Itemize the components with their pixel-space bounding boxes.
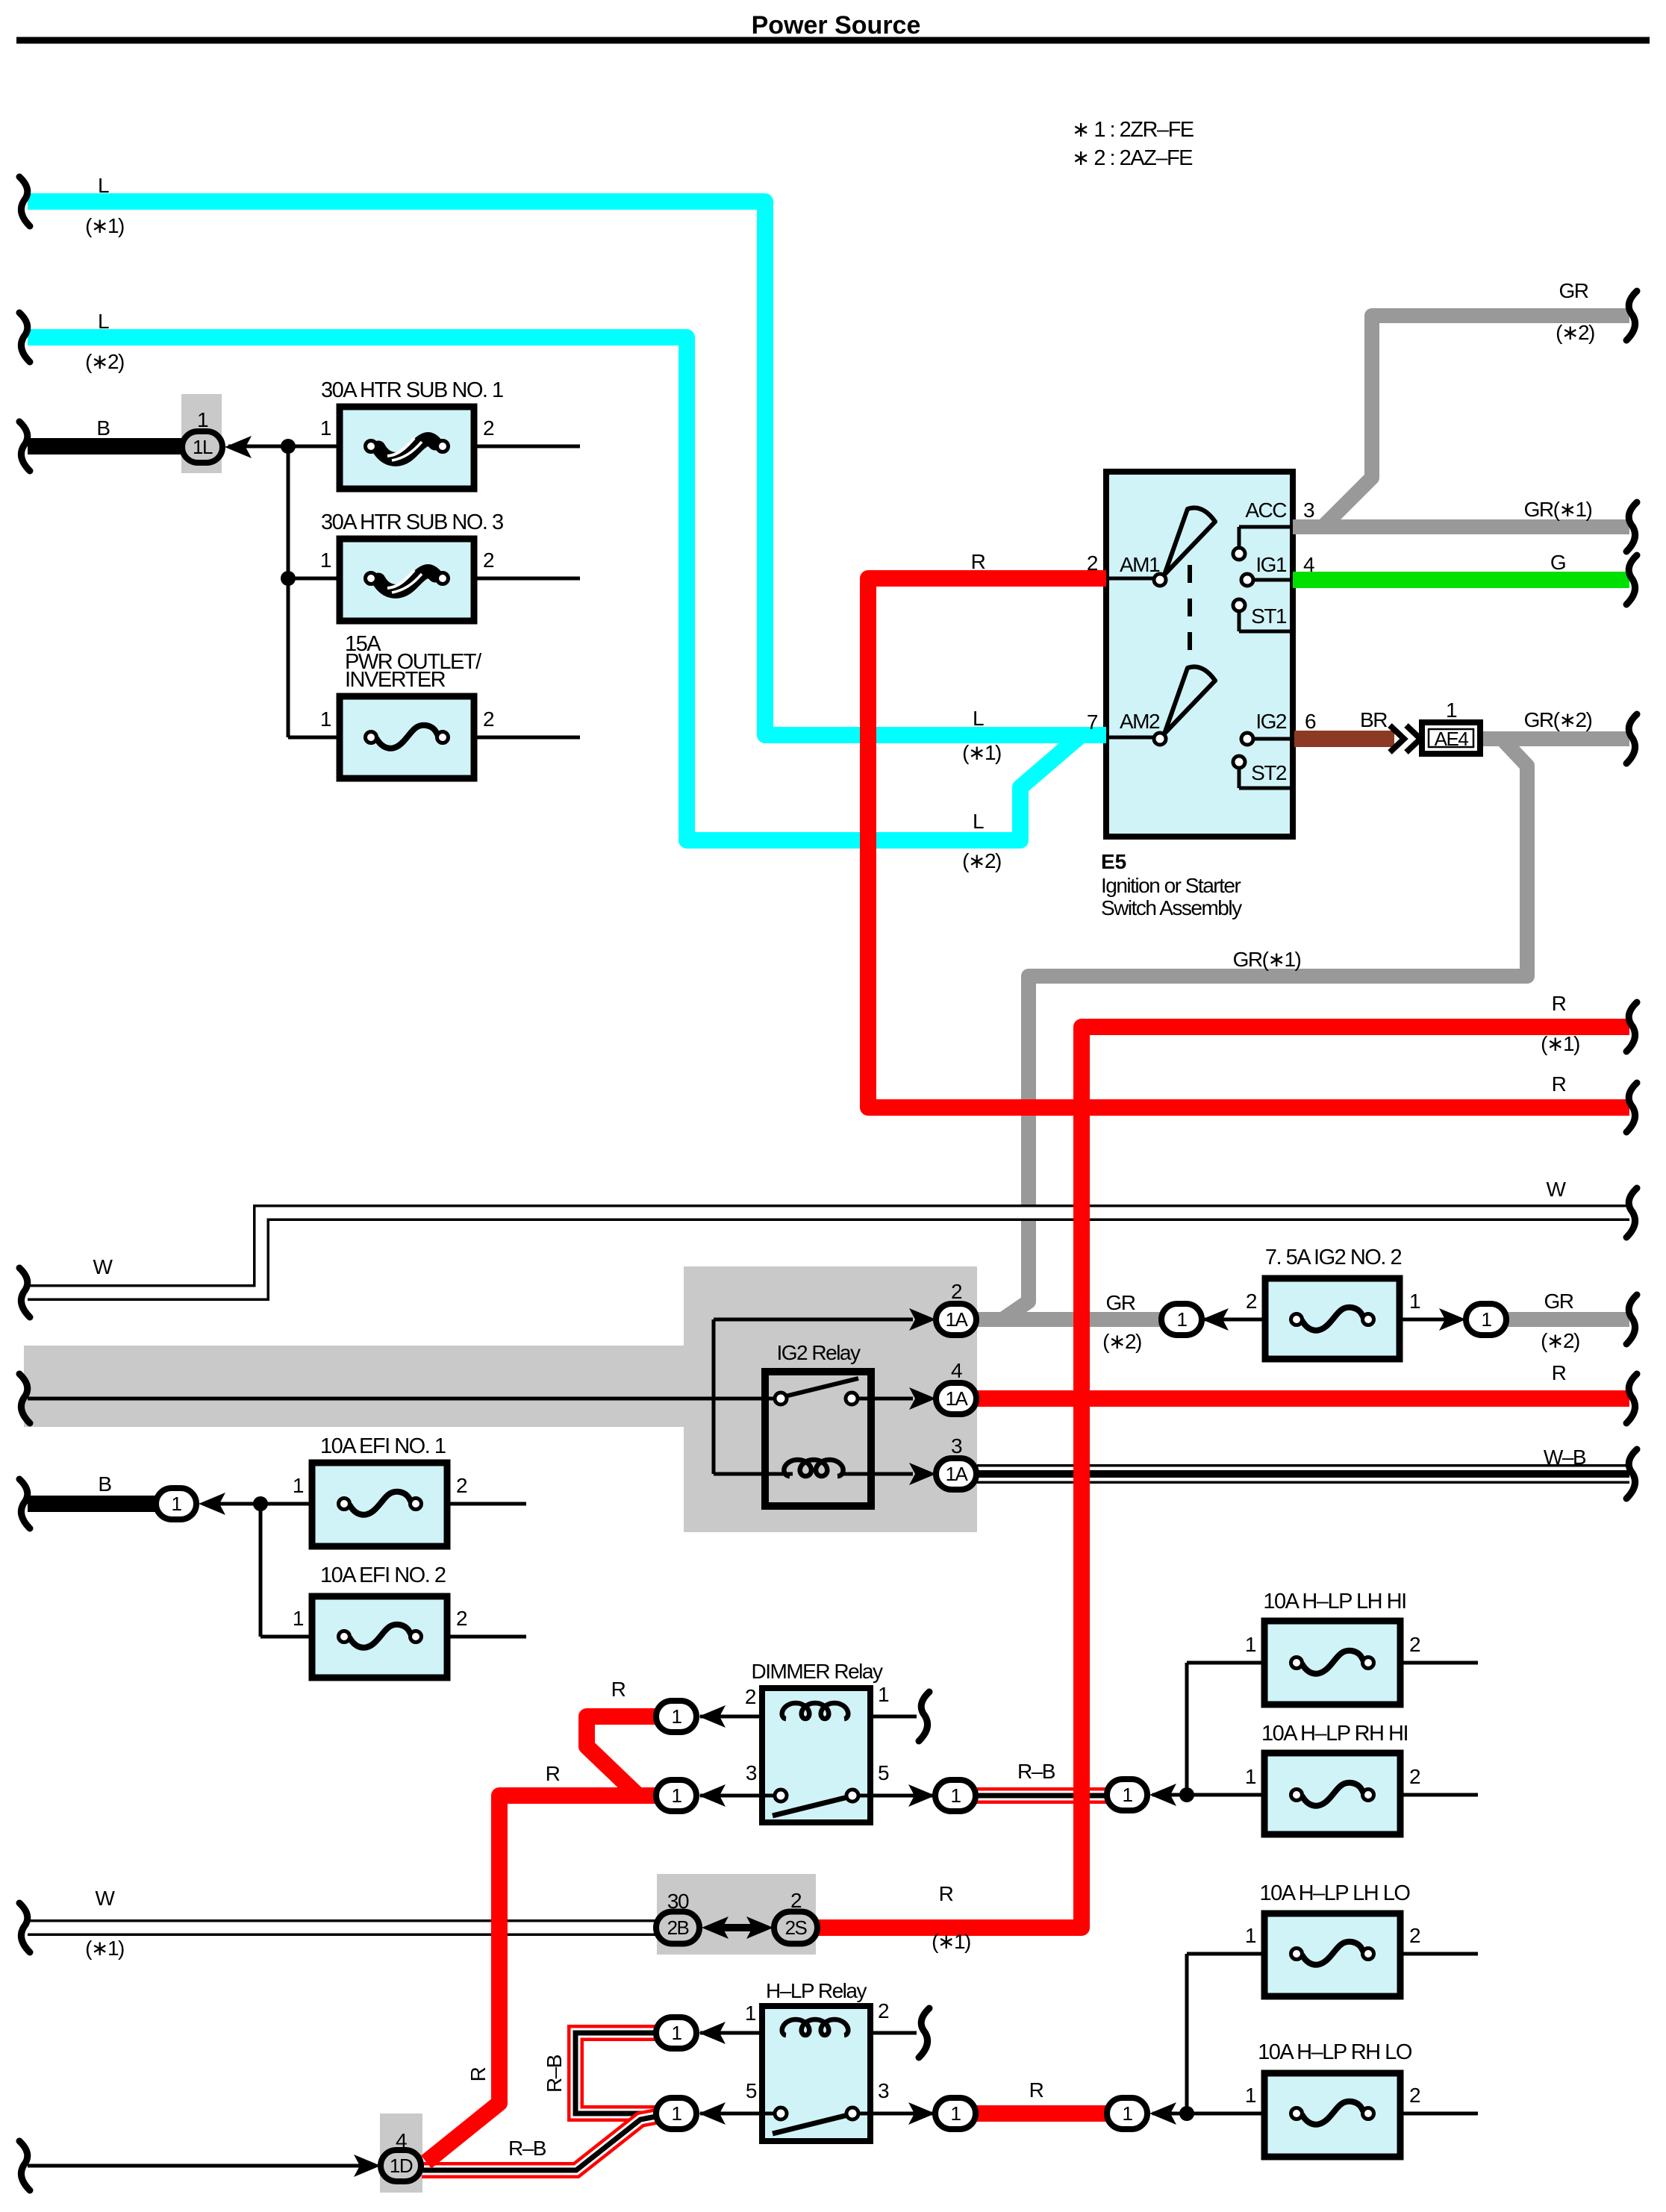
svg-text:1: 1 <box>672 2102 682 2125</box>
connector 1A pin2 <box>909 1280 976 1335</box>
wire: fuse 15A output stub <box>474 736 580 740</box>
fuse 30A HTR SUB NO.3 pins <box>320 549 494 572</box>
svg-text:10A H–LP RH LO: 10A H–LP RH LO <box>1258 2040 1412 2064</box>
IG2 relay switch <box>775 1378 858 1405</box>
fuse 30A HTR SUB NO.1 box <box>340 407 474 489</box>
label R-B 1D <box>508 2137 546 2160</box>
svg-text:7: 7 <box>1087 710 1098 734</box>
break B left <box>19 422 30 471</box>
wire: fuse HTR1 output stub <box>474 445 580 449</box>
label R-B loop rotated <box>543 2055 566 2093</box>
svg-text:3: 3 <box>878 2079 889 2102</box>
svg-text:(∗2): (∗2) <box>1556 321 1594 344</box>
svg-text:DIMMER Relay: DIMMER Relay <box>752 1660 883 1683</box>
svg-text:2: 2 <box>483 416 494 440</box>
svg-text:W: W <box>1547 1178 1567 1201</box>
label L(*1) <box>85 174 124 237</box>
E5 AM2 terminal <box>1106 733 1166 745</box>
fuse 15A label <box>345 632 482 692</box>
label W left <box>93 1255 113 1278</box>
wire: fuse RH LO output stub <box>1400 2112 1478 2116</box>
svg-text:1: 1 <box>1245 1924 1256 1947</box>
svg-text:ST1: ST1 <box>1251 604 1287 628</box>
label R dimmer sw <box>546 1762 560 1785</box>
H-LP relay box <box>762 2006 870 2141</box>
fuse 10A H-LP LH HI box <box>1264 1621 1400 1705</box>
break 1D left <box>19 2141 30 2190</box>
svg-text:L: L <box>973 810 984 833</box>
wire: fuse LH HI output stub <box>1400 1661 1478 1665</box>
fuse 30A HTR SUB NO.1 element <box>366 438 449 460</box>
wire: DIMMER relay pin3 lead <box>700 1794 781 1798</box>
fuse 10A EFI NO.2 pins <box>293 1607 467 1630</box>
connector 2B/2S highlight background <box>657 1874 816 1955</box>
label R trunk rotated <box>467 2067 490 2081</box>
DIMMER relay box <box>762 1688 870 1822</box>
svg-text:1: 1 <box>172 1493 182 1515</box>
H-LP relay pin numbers <box>745 1999 889 2102</box>
svg-text:R–B: R–B <box>1017 1760 1055 1783</box>
svg-text:R: R <box>1029 2078 1043 2102</box>
E5 pin numbers <box>1087 499 1316 734</box>
connector AE4 <box>1390 699 1480 754</box>
wire: fuse EFI1 output stub <box>447 1502 526 1506</box>
connector 1 (GR to fuse) <box>1161 1304 1229 1335</box>
svg-text:Switch Assembly: Switch Assembly <box>1101 896 1242 919</box>
E5 IG2 terminal <box>1241 733 1293 745</box>
svg-text:4: 4 <box>951 1359 962 1382</box>
svg-text:3: 3 <box>951 1434 962 1458</box>
svg-text:10A H–LP LH LO: 10A H–LP LH LO <box>1260 1881 1411 1905</box>
svg-text:R–B: R–B <box>508 2137 546 2160</box>
wire R IG2 relay pin4 <box>977 1390 1629 1407</box>
label GR(*2) AE4 <box>1524 708 1592 731</box>
break B EFI left <box>19 1479 30 1528</box>
label GR(*2) right <box>1541 1290 1579 1352</box>
svg-text:5: 5 <box>746 2079 757 2102</box>
svg-text:GR: GR <box>1544 1290 1573 1313</box>
svg-text:INVERTER: INVERTER <box>345 668 446 692</box>
IG2 relay highlight background <box>24 1266 977 1532</box>
svg-text:4: 4 <box>1303 553 1314 576</box>
fuse 10A EFI NO.2 label <box>320 1563 446 1587</box>
svg-text:ST2: ST2 <box>1251 761 1287 784</box>
svg-text:W–B: W–B <box>1544 1446 1586 1469</box>
title: Power Source <box>752 11 921 40</box>
svg-text:1A: 1A <box>946 1463 969 1485</box>
svg-text:R: R <box>1552 1072 1566 1096</box>
fuse 10A H-LP LH HI element <box>1291 1651 1374 1674</box>
connector 1 (DIMMER pin3) <box>656 1780 726 1811</box>
connector 1 (H-LP pin5) <box>656 2098 726 2129</box>
connector 1D highlight background <box>380 2113 422 2193</box>
svg-text:1: 1 <box>672 1784 682 1807</box>
wire W-B from IG2 relay pin3 <box>977 1464 1629 1484</box>
svg-text:(∗2): (∗2) <box>962 849 1001 872</box>
svg-text:R–B: R–B <box>543 2055 566 2093</box>
title rule <box>16 37 1650 44</box>
svg-text:1: 1 <box>1482 1308 1492 1331</box>
svg-text:GR(∗1): GR(∗1) <box>1233 948 1301 971</box>
junction dot 1L bus <box>281 439 296 454</box>
fuse 30A HTR SUB NO.1 label <box>321 378 503 402</box>
E5 ST1 terminal <box>1233 599 1293 631</box>
wire B battery (EFI) <box>28 1496 156 1512</box>
break IG2-band left <box>19 1374 30 1423</box>
E5 ACC terminal <box>1233 527 1293 560</box>
label B EFI <box>98 1472 111 1496</box>
svg-text:L: L <box>98 174 109 197</box>
wire: 1D feed line from left <box>28 2164 361 2168</box>
svg-text:R: R <box>546 1762 560 1785</box>
wire: H-LP relay coil to pin2 break <box>870 2031 917 2035</box>
wire: IG2 relay switch to 1A pin4 <box>852 1397 913 1401</box>
svg-text:2: 2 <box>456 1607 467 1630</box>
svg-text:7. 5A IG2 NO. 2: 7. 5A IG2 NO. 2 <box>1265 1246 1402 1269</box>
wire R-B H-LP coil loop <box>575 2033 658 2113</box>
svg-text:2: 2 <box>1246 1290 1257 1313</box>
label R H-LP out <box>1029 2078 1043 2102</box>
svg-text:(∗1): (∗1) <box>932 1930 970 1953</box>
svg-text:1: 1 <box>1245 2084 1256 2107</box>
svg-text:AM2: AM2 <box>1120 710 1160 733</box>
svg-text:1: 1 <box>320 549 331 572</box>
svg-text:1: 1 <box>320 707 331 731</box>
label W right <box>1547 1178 1567 1201</box>
svg-text:(∗1): (∗1) <box>85 1937 124 1960</box>
wire: fuse LH LO output stub <box>1400 1952 1478 1956</box>
DIMMER relay pin numbers <box>745 1683 889 1784</box>
svg-text:W: W <box>93 1255 113 1278</box>
svg-text:G: G <box>1550 551 1565 574</box>
svg-text:1: 1 <box>293 1474 304 1497</box>
svg-text:(∗2): (∗2) <box>1102 1330 1141 1353</box>
break G right <box>1626 555 1637 604</box>
svg-text:2S: 2S <box>785 1916 808 1939</box>
svg-text:IG2 Relay: IG2 Relay <box>777 1341 861 1364</box>
svg-text:IG2: IG2 <box>1255 710 1287 733</box>
link 2B-2S <box>722 1924 753 1931</box>
wire: junction to H-LP LO fuses <box>1152 1954 1264 2113</box>
junction dot H-LP LO fuses <box>1179 2106 1194 2121</box>
wire B battery (top) <box>28 438 182 454</box>
IG2 relay coil <box>784 1460 843 1476</box>
label L(*2) AM2 <box>962 810 1001 872</box>
wire: junction to H-LP HI fuses <box>1152 1663 1264 1795</box>
junction dot HTR3 <box>281 571 296 586</box>
svg-text:2: 2 <box>790 1889 802 1912</box>
wire: IG2 relay switch feed (in gray band) <box>28 1397 781 1401</box>
wire: fuse EFI2 output stub <box>447 1635 526 1639</box>
H-LP relay coil <box>782 2019 849 2035</box>
connector 1 (B EFI) <box>156 1488 225 1519</box>
DIMMER relay coil <box>782 1703 849 1719</box>
svg-text:2: 2 <box>456 1474 467 1497</box>
wire GR(*2) fuse to right <box>1503 1312 1629 1327</box>
svg-text:1: 1 <box>1177 1308 1188 1331</box>
fuse 15A PWR OUTLET/INVERTER box <box>340 696 474 778</box>
fuse 10A H-LP RH HI element <box>1291 1783 1374 1806</box>
svg-text:BR: BR <box>1360 708 1387 731</box>
fuse 7.5A IG2 NO.2 label <box>1265 1246 1402 1269</box>
wire: DIMMER relay pin5 to connector <box>852 1794 939 1798</box>
wire R-B DIMMER pin5 <box>973 1787 1109 1804</box>
wire: fuse HTR3 output stub <box>474 577 580 581</box>
wire: DIMMER relay coil to pin1 break <box>870 1715 917 1719</box>
svg-text:IG1: IG1 <box>1255 553 1287 576</box>
label GR(*2) top <box>1556 279 1594 344</box>
label GR(*2) pin2 <box>1102 1291 1141 1353</box>
E5 AM1 terminal <box>1106 574 1166 586</box>
svg-text:1: 1 <box>951 1784 961 1807</box>
svg-text:Ignition or Starter: Ignition or Starter <box>1101 874 1241 897</box>
break DIMMER pin1 right <box>919 1692 929 1741</box>
wire R(*1) riser <box>816 1027 1629 1928</box>
label G <box>1550 551 1565 574</box>
break W left <box>19 1268 30 1317</box>
svg-text:R: R <box>1552 992 1566 1015</box>
svg-text:2: 2 <box>1409 1633 1420 1656</box>
svg-text:2: 2 <box>483 707 494 731</box>
svg-text:1: 1 <box>878 1683 889 1706</box>
svg-text:R: R <box>1552 1361 1566 1384</box>
label R pin4 <box>1552 1361 1566 1384</box>
connector 1D <box>354 2129 421 2181</box>
fuse 15A element <box>366 725 449 749</box>
fuse 7.5A IG2 NO.2 box <box>1265 1278 1400 1359</box>
svg-text:10A H–LP LH HI: 10A H–LP LH HI <box>1263 1590 1406 1613</box>
svg-text:1L: 1L <box>193 436 213 458</box>
break R pin4 right <box>1626 1374 1637 1423</box>
fuse 10A EFI NO.2 box <box>312 1596 447 1678</box>
wire R-B from 1D to H-LP pin5 <box>422 2116 656 2170</box>
svg-text:1: 1 <box>1123 2102 1133 2125</box>
fuse 10A H-LP RH LO pins <box>1245 2084 1420 2107</box>
E5 AM1 lever <box>1164 507 1215 575</box>
label R(*1) right <box>1541 992 1579 1055</box>
E5 terminal names <box>1120 499 1287 784</box>
svg-text:3: 3 <box>1303 499 1314 522</box>
fuse 15A pins <box>320 707 494 731</box>
DIMMER relay label <box>752 1660 883 1683</box>
svg-text:2: 2 <box>745 1685 756 1708</box>
wire GR from ACC with GR(*2) branch <box>1293 316 1629 527</box>
svg-text:2: 2 <box>1409 2084 1420 2107</box>
wire: H-LP relay pin1 lead <box>700 2031 762 2035</box>
wire R DIMMER branch <box>587 1716 658 1798</box>
connector 2B <box>656 1890 729 1944</box>
wire G green from IG1 <box>1293 572 1629 588</box>
svg-text:1D: 1D <box>390 2155 413 2177</box>
svg-text:R: R <box>467 2067 490 2081</box>
svg-text:(∗2): (∗2) <box>1541 1329 1579 1352</box>
break W right <box>1626 1188 1637 1237</box>
break W-B right <box>1626 1449 1637 1499</box>
break W(*1) left <box>19 1903 30 1952</box>
E5 IG1 terminal <box>1241 574 1293 586</box>
connector 2S <box>746 1889 817 1944</box>
svg-text:1: 1 <box>1245 1633 1256 1656</box>
wire: fuse RH HI output stub <box>1400 1793 1478 1797</box>
junction dot EFI <box>253 1496 268 1511</box>
svg-text:2: 2 <box>951 1280 962 1303</box>
svg-text:2: 2 <box>483 549 494 572</box>
fuse 10A EFI NO.1 element <box>339 1492 422 1515</box>
fuse 10A H-LP LH HI pins <box>1245 1633 1420 1656</box>
wire: 7.5A fuse leads <box>1205 1318 1446 1322</box>
fuse 10A H-LP LH LO pins <box>1245 1924 1420 1947</box>
svg-text:2: 2 <box>1087 552 1098 575</box>
wire BR brown from IG2 <box>1294 731 1394 747</box>
svg-text:10A H–LP RH HI: 10A H–LP RH HI <box>1261 1722 1408 1746</box>
svg-text:∗ 2 : 2AZ–FE: ∗ 2 : 2AZ–FE <box>1072 146 1193 170</box>
label W-B <box>1544 1446 1586 1469</box>
label B top <box>96 416 110 440</box>
svg-text:GR: GR <box>1559 279 1588 302</box>
label BR <box>1360 708 1387 731</box>
connector 1 (R-B to HI fuses) <box>1107 1779 1176 1810</box>
wire GR(*2) from AE4 <box>1480 731 1629 746</box>
connector 1L highlight background <box>181 394 222 473</box>
svg-text:R: R <box>971 550 985 573</box>
label R(*1) 2S <box>932 1882 970 1953</box>
wire: IG2 relay coil feed from 1A pin2 <box>714 1319 913 1474</box>
wire GR(*2) IG2 relay pin2 to fuse <box>977 1312 1161 1327</box>
E5 lever dashed link <box>1188 565 1192 661</box>
svg-text:(∗1): (∗1) <box>962 741 1001 764</box>
svg-text:1A: 1A <box>946 1308 969 1331</box>
break GR(*2) AE4 right <box>1626 714 1637 763</box>
connector 1A pin4 <box>909 1359 976 1414</box>
svg-text:2: 2 <box>878 1999 889 2022</box>
fuse 30A HTR SUB NO.3 label <box>321 510 503 534</box>
svg-text:30A HTR SUB NO. 1: 30A HTR SUB NO. 1 <box>321 378 503 402</box>
label R right <box>1552 1072 1566 1096</box>
connector 1 (H-LP pin1) <box>656 2017 726 2049</box>
svg-text:R: R <box>611 1678 625 1701</box>
wire R H-LP pin3 <box>973 2105 1109 2122</box>
connector 1 (DIMMER pin2) <box>656 1701 726 1732</box>
svg-text:R: R <box>939 1882 953 1905</box>
svg-text:Power Source: Power Source <box>752 11 921 40</box>
fuse 10A H-LP LH LO element <box>1291 1942 1374 1965</box>
wire R from AM1 <box>868 578 1629 1107</box>
svg-text:10A EFI NO. 1: 10A EFI NO. 1 <box>320 1434 446 1458</box>
label L(*1) AM2 <box>962 707 1001 764</box>
svg-text:1A: 1A <box>946 1387 969 1410</box>
svg-text:1: 1 <box>672 1705 682 1728</box>
svg-text:10A EFI NO. 2: 10A EFI NO. 2 <box>320 1563 446 1587</box>
svg-text:1: 1 <box>320 416 331 440</box>
fuse 10A H-LP LH LO label <box>1260 1881 1411 1905</box>
fuse 10A H-LP RH HI box <box>1264 1753 1400 1834</box>
E5 component label <box>1101 850 1242 919</box>
wire R trunk to 1D <box>426 1796 658 2162</box>
H-LP relay label <box>766 1979 867 2002</box>
break L(*2) left <box>19 313 30 362</box>
wire: H-LP relay pin3 to connector <box>852 2112 939 2116</box>
fuse 10A H-LP RH LO box <box>1264 2073 1400 2157</box>
label W(*1) 2B <box>85 1887 124 1960</box>
label L(*2) <box>85 310 124 373</box>
svg-text:1: 1 <box>745 2002 756 2025</box>
wire: H-LP relay pin5 lead <box>700 2112 781 2116</box>
svg-text:6: 6 <box>1305 710 1316 733</box>
svg-text:1: 1 <box>951 2102 961 2125</box>
svg-text:B: B <box>98 1472 111 1496</box>
wire L(*1) cyan <box>28 201 1106 735</box>
break GR(*2) right <box>1626 291 1637 340</box>
connector 1 (R to LO fuses) <box>1107 2098 1176 2129</box>
fuse 10A H-LP RH LO element <box>1291 2102 1374 2125</box>
svg-text:ACC: ACC <box>1245 499 1287 522</box>
connector 1 (DIMMER pin5 out) <box>908 1780 976 1811</box>
svg-text:1: 1 <box>1446 699 1457 722</box>
ignition switch E5 box <box>1106 472 1293 837</box>
svg-text:1: 1 <box>1245 1765 1256 1788</box>
svg-text:(∗1): (∗1) <box>85 214 124 237</box>
svg-text:L: L <box>973 707 984 730</box>
wire: EFI junction bus <box>203 1504 312 1637</box>
svg-text:E5: E5 <box>1101 850 1126 873</box>
E5 AM2 lever <box>1164 666 1215 734</box>
svg-text:B: B <box>96 416 110 440</box>
IG2 relay box <box>765 1372 871 1506</box>
svg-text:5: 5 <box>878 1761 889 1784</box>
break R(*1) right <box>1626 1002 1637 1052</box>
wire L(*2) cyan <box>28 337 1079 840</box>
svg-text:2: 2 <box>1409 1924 1420 1947</box>
fuse 30A HTR SUB NO.1 pins <box>320 416 494 440</box>
label GR(*1) ACC <box>1524 498 1592 521</box>
IG2 relay label <box>777 1341 861 1364</box>
wire: IG2 relay coil to 1A pin3 <box>840 1472 913 1476</box>
wire: 1L junction bus to HTR/15A fuses <box>228 446 340 737</box>
wire W(*1) to 2B <box>28 1919 658 1936</box>
label GR(*1) mid <box>1233 948 1301 971</box>
svg-text:1: 1 <box>672 2022 682 2044</box>
svg-text:(∗1): (∗1) <box>1541 1032 1579 1055</box>
wire: DIMMER relay pin2 lead <box>700 1715 762 1719</box>
connector 1A pin3 <box>909 1434 976 1490</box>
H-LP relay switch <box>773 2108 858 2134</box>
fuse 10A EFI NO.2 element <box>339 1625 422 1648</box>
svg-text:GR(∗1): GR(∗1) <box>1524 498 1592 521</box>
fuse 7.5A IG2 NO.2 pins <box>1246 1290 1420 1313</box>
E5 ST2 terminal <box>1233 756 1293 788</box>
fuse 10A H-LP LH LO box <box>1264 1913 1400 1996</box>
label R dimmer coil <box>611 1678 625 1701</box>
label R-B dimmer <box>1017 1760 1055 1783</box>
break H-LP pin2 right <box>919 2008 929 2058</box>
svg-text:H–LP Relay: H–LP Relay <box>766 1979 867 2002</box>
svg-text:AM1: AM1 <box>1120 553 1160 576</box>
svg-text:1: 1 <box>293 1607 304 1630</box>
break GR(*1) right <box>1626 502 1637 552</box>
fuse 10A EFI NO.1 pins <box>293 1474 467 1497</box>
break R right <box>1626 1083 1637 1132</box>
svg-text:AE4: AE4 <box>1435 728 1469 750</box>
fuse 10A H-LP RH HI label <box>1261 1722 1408 1746</box>
svg-text:3: 3 <box>746 1761 757 1784</box>
connector 1 (fuse to GR) <box>1439 1304 1506 1335</box>
svg-text:(∗2): (∗2) <box>85 350 124 373</box>
break GR(*2) fuse right <box>1626 1295 1637 1344</box>
svg-text:2: 2 <box>1409 1765 1420 1788</box>
break L(*1) left <box>19 177 30 226</box>
DIMMER relay switch <box>773 1790 858 1816</box>
wire W top <box>28 1213 1629 1293</box>
